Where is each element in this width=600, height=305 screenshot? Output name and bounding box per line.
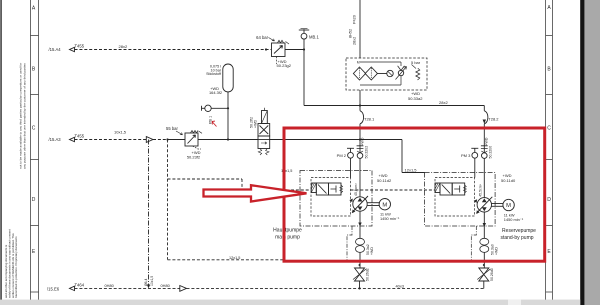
variable pump P2 <box>474 197 493 214</box>
svg-text:164.3f2: 164.3f2 <box>209 90 222 95</box>
svg-text:28x2: 28x2 <box>119 44 128 49</box>
node junction main line / pump1 riser <box>359 138 361 140</box>
pilot line dashed between units <box>351 189 436 191</box>
svg-text:28x2: 28x2 <box>353 37 357 45</box>
label MB.1 <box>309 35 319 40</box>
svg-text:50.23f2: 50.23f2 <box>187 155 201 160</box>
label 50.22b0 rotated <box>485 137 493 158</box>
test point PB 1 <box>202 105 230 111</box>
label +WD 50.11d0 <box>501 173 516 183</box>
label Reservepumpe <box>502 228 536 234</box>
pipe label 12x1,5 at stand-by feed <box>405 167 418 172</box>
pipe labels at drain dash-dot rotated <box>144 276 154 286</box>
svg-text:M: M <box>506 203 511 209</box>
svg-text:C: C <box>32 126 36 132</box>
svg-text:Hauptpumpe: Hauptpumpe <box>273 227 302 233</box>
control valve dashed box unit 2 <box>435 178 475 217</box>
svg-text:0H80: 0H80 <box>105 283 115 288</box>
svg-text:M: M <box>357 60 360 64</box>
right row-letter column <box>546 0 553 300</box>
svg-text:64 bar: 64 bar <box>256 35 268 40</box>
svg-text:50.11d0: 50.11d0 <box>501 178 516 183</box>
pipe labels P420 / 28x2 rotated <box>349 15 357 45</box>
clogging indicator gauge <box>377 70 393 76</box>
label M2 <box>506 203 511 209</box>
svg-text:28x2: 28x2 <box>439 100 448 105</box>
wire pump2 discharge drop with loop T28.2 <box>483 106 488 146</box>
wire pump2 suction down <box>483 212 486 239</box>
svg-text:+WD: +WD <box>370 247 374 255</box>
svg-text:12x1,5: 12x1,5 <box>229 256 240 260</box>
test point PM 2 <box>347 148 354 177</box>
variable pump P1 <box>349 196 368 213</box>
pressure relief valve 55 bar <box>185 131 202 150</box>
filter F1 element 2 <box>365 67 377 80</box>
label 50.2tf2 +WD rotated <box>249 117 257 128</box>
wire filter down to manifold <box>359 90 361 107</box>
svg-text:50.22b0: 50.22b0 <box>489 146 493 159</box>
node flag /15.A3 <box>70 137 75 141</box>
label PM 3 <box>461 153 471 158</box>
right row letters A-E <box>547 5 551 255</box>
pipe label 28x2 on manifold <box>439 100 448 105</box>
line labels /15.A4 T455 <box>49 43 85 52</box>
shut-off valve 50.26d2 <box>353 264 366 290</box>
svg-text:T28.2: T28.2 <box>488 117 499 122</box>
pipe label 12x1,5 on drain header <box>229 256 240 260</box>
label 11 kW 1450 min-1 <box>380 212 400 221</box>
filter unit dashed enclosure <box>346 58 427 90</box>
left row-letter column <box>31 0 39 300</box>
label +WD 164.3f2 <box>209 86 222 95</box>
svg-text:T455: T455 <box>75 133 85 138</box>
filter F1 element 1 <box>353 67 365 80</box>
svg-text:55 bar: 55 bar <box>166 126 178 131</box>
wire pump1 discharge drop with loop T28.1 <box>360 106 364 146</box>
case drain dash-dot jog unit 1 <box>347 226 352 260</box>
left row letters A-E <box>32 6 36 256</box>
label PM 2 <box>337 153 347 158</box>
node flag /15.E6 <box>70 286 75 290</box>
pipe label 12x1,5 at unit 1 <box>281 169 292 173</box>
pipe label T28.1 <box>364 117 375 122</box>
svg-text:45,5cm³: 45,5cm³ <box>354 183 358 196</box>
solenoid shut-off valve 50.2tf2 <box>258 108 270 155</box>
pump unit 1 dash-dot enclosure <box>300 171 372 227</box>
svg-text:+WD: +WD <box>495 247 499 255</box>
svg-text:0H80: 0H80 <box>161 283 171 288</box>
drain header dashed to tank <box>168 259 285 261</box>
svg-text:M: M <box>382 202 387 208</box>
label +WD 50.3a0 rotated <box>491 244 499 255</box>
label 11 kW 1450 min-1 unit 2 <box>504 212 524 221</box>
red annotation arrow at PB 1 <box>212 121 217 126</box>
node junction pilot branch <box>166 138 185 140</box>
svg-text:/15.A3: /15.A3 <box>49 137 62 142</box>
label Hauptpumpe <box>273 227 302 233</box>
svg-text:MB.1: MB.1 <box>309 35 319 40</box>
svg-text:T455: T455 <box>75 43 85 48</box>
label +WD 50.23f2 <box>187 150 201 160</box>
node flag /15.A4 <box>70 47 75 51</box>
value label 5 bar <box>411 60 421 65</box>
pressure gauge MB.1 <box>299 29 309 50</box>
svg-text:T464: T464 <box>75 282 85 287</box>
drain line dash-dot to T464 <box>147 140 150 289</box>
svg-text:any purpose other than that on: any purpose other than that one intended… <box>22 63 26 169</box>
label stand-by pump (red) <box>500 235 533 241</box>
control valve dashed box unit 1 <box>311 178 351 217</box>
svg-text:D: D <box>32 197 36 203</box>
spring 5 bar <box>412 65 420 81</box>
pilot line dashed vertical from junction <box>167 140 169 260</box>
svg-text:D: D <box>547 197 551 203</box>
flow symbol on T455 line <box>146 137 153 143</box>
drive shaft pump2-motor <box>492 204 504 207</box>
line labels /15.A3 T455 <box>49 133 85 142</box>
svg-text:transmitted in protection. Pro: transmitted in protection. Proprietary d… <box>14 236 18 298</box>
svg-text:Stickstoff: Stickstoff <box>206 72 222 76</box>
drive shaft pump1-motor <box>367 203 379 206</box>
svg-text:+WD: +WD <box>485 137 489 145</box>
flow symbol on T464 line <box>180 286 187 292</box>
shut-off valve 50.26d0 <box>477 264 490 288</box>
svg-text:8H52: 8H52 <box>349 29 353 38</box>
port label M <box>357 60 360 64</box>
pipe label T28.2 <box>488 117 499 122</box>
svg-text:50.11d2: 50.11d2 <box>377 178 392 183</box>
svg-text:+WD: +WD <box>253 120 257 128</box>
bypass check valve 5 bar <box>360 62 407 85</box>
svg-text:10x1,5: 10x1,5 <box>114 130 127 135</box>
label main pump (red) <box>275 235 300 241</box>
svg-text:1450 min⁻¹: 1450 min⁻¹ <box>380 216 400 221</box>
pipe labels 0H80 0H80 40x3 <box>105 283 404 288</box>
label 50.26d0 rotated <box>490 268 494 281</box>
svg-text:1450 min⁻¹: 1450 min⁻¹ <box>504 217 524 222</box>
value label 64 bar <box>256 35 274 41</box>
left page edge line <box>0 0 1 300</box>
svg-text:PM 3: PM 3 <box>461 153 471 158</box>
svg-text:/15.E6: /15.E6 <box>47 287 60 292</box>
svg-text:T28.1: T28.1 <box>364 117 375 122</box>
label PB 1 rotated <box>209 116 213 124</box>
svg-text:50.26d0: 50.26d0 <box>490 268 494 281</box>
svg-text:45,5cm³: 45,5cm³ <box>479 183 483 196</box>
svg-text:C: C <box>547 126 551 132</box>
svg-text:50.26d2: 50.26d2 <box>366 268 370 281</box>
wire tank line T464 (dashed) <box>75 287 484 289</box>
wire relief output to gauge tee <box>285 49 304 51</box>
svg-text:PM 2: PM 2 <box>337 153 347 158</box>
proportional valve unit 2 <box>435 183 466 195</box>
left disclaimer rotated text block 2 <box>4 229 18 298</box>
label 45,5cm3 rotated <box>354 183 358 196</box>
svg-text:10x1,5: 10x1,5 <box>150 276 154 286</box>
line labels /15.E6 T464 <box>47 282 85 291</box>
pump unit 2 dash-dot enclosure <box>425 173 496 227</box>
proportional valve unit 1 <box>311 183 342 195</box>
wire suction manifold 28x2 <box>304 105 484 107</box>
node junction at relief pilot <box>265 48 267 50</box>
svg-text:+WD: +WD <box>360 137 364 145</box>
svg-text:main pump: main pump <box>275 235 300 241</box>
labels accumulator data <box>206 65 222 76</box>
label +WD 50.23g2 <box>277 59 292 68</box>
label 45,5cm3 unit 2 rotated <box>479 183 483 196</box>
check valve 50.22b0 <box>481 146 488 198</box>
case drain dash-dot jog unit 2 <box>471 226 476 260</box>
hose compensator unit 1 <box>356 238 365 267</box>
electric motor M1 <box>379 199 390 210</box>
svg-text:50.22b2: 50.22b2 <box>364 146 368 159</box>
left disclaimer rotated text block 1 <box>18 63 26 169</box>
label 50.26d2 rotated <box>366 268 370 281</box>
label M1 <box>382 202 387 208</box>
accumulator 0,075 l <box>223 64 233 141</box>
wire riser P420 to page top <box>359 0 361 58</box>
pipe label 28x2 upper <box>119 44 128 49</box>
wire T455 upper pilot line (dashed) <box>75 49 272 51</box>
svg-text:P420: P420 <box>353 15 357 24</box>
wire gauge tee down to manifold <box>303 50 305 106</box>
hose compensator unit 2 <box>480 238 489 267</box>
red callout arrow <box>204 185 307 201</box>
bottom gray strip <box>0 300 580 305</box>
test point PM 3 <box>471 148 478 177</box>
svg-text:Ø6,4: Ø6,4 <box>144 279 148 286</box>
electric motor M2 <box>503 199 514 210</box>
pilot line dashed upper branch <box>168 179 312 190</box>
label 50.22b2 rotated <box>360 137 368 158</box>
right black page border bar <box>580 0 584 305</box>
wire pump1 suction down <box>358 211 361 238</box>
label +WD 50.3a2 rotated <box>366 244 374 255</box>
svg-text:50.23g2: 50.23g2 <box>277 63 292 68</box>
node tee at gauge <box>303 48 305 50</box>
svg-text:5 bar: 5 bar <box>411 60 421 65</box>
wire T455 lower pilot line (dashed) <box>75 139 168 141</box>
svg-text:Reservepumpe: Reservepumpe <box>502 228 536 234</box>
svg-text:50.33a2: 50.33a2 <box>408 96 423 101</box>
value label 55 bar <box>166 126 183 135</box>
svg-text:40x3: 40x3 <box>396 284 404 289</box>
label +WD 50.33a2 <box>408 91 423 101</box>
label +WD 50.11d2 <box>377 173 392 183</box>
svg-text:stand-by pump: stand-by pump <box>500 235 533 241</box>
svg-text:12x1,5: 12x1,5 <box>405 167 418 172</box>
check valve 50.22b2 <box>357 146 364 197</box>
wire main pressure line P <box>198 140 425 173</box>
pressure reducing valve 64 bar <box>272 40 290 64</box>
pipe label 10x1,5 <box>114 130 127 135</box>
svg-text:/15.A4: /15.A4 <box>49 47 62 52</box>
right gray background panel <box>584 0 600 305</box>
red highlight box <box>284 128 545 261</box>
